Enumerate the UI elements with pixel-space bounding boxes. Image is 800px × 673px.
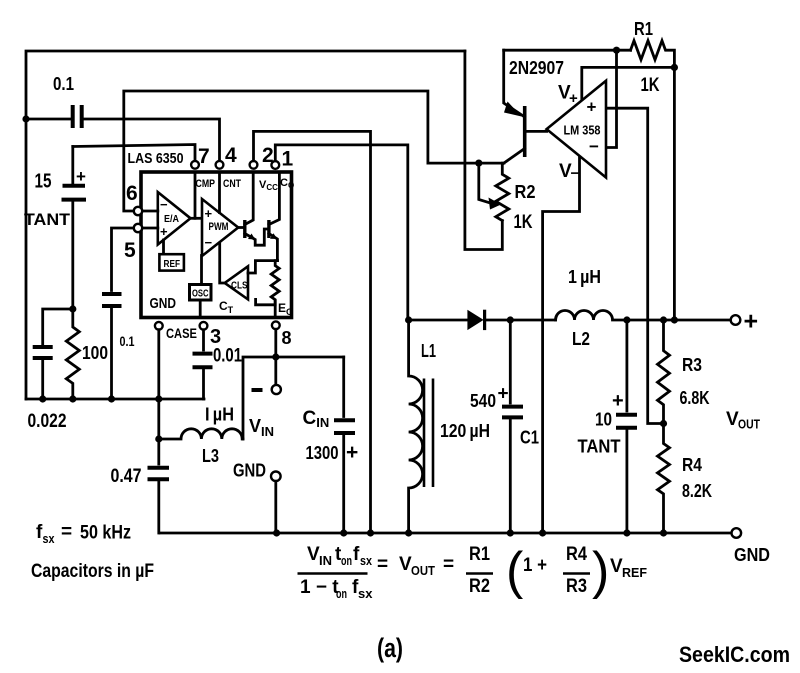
svg-text:R2: R2 — [469, 576, 490, 597]
terminal minus input — [274, 357, 277, 384]
svg-text:1K: 1K — [641, 75, 660, 96]
svg-text:=: = — [443, 554, 454, 575]
svg-text:0.01: 0.01 — [213, 346, 242, 367]
wire: R1 left to - input — [606, 50, 617, 147]
node: left rail to 0.1 cap — [22, 115, 29, 122]
svg-text:=: = — [61, 522, 72, 543]
wire: CNT drop — [218, 173, 221, 213]
svg-text:+: + — [76, 167, 86, 186]
terminal + output — [731, 315, 741, 325]
svg-text:LAS 6350: LAS 6350 — [128, 150, 184, 167]
wire: CLS bottom input — [256, 299, 276, 304]
svg-text:8.2K: 8.2K — [682, 481, 712, 501]
svg-text:−: − — [160, 197, 168, 212]
svg-text:2N2907: 2N2907 — [509, 58, 564, 78]
svg-text:6.8K: 6.8K — [680, 388, 710, 408]
wire: pin 2 to bottom rail — [254, 131, 371, 533]
resistor 100 — [66, 309, 79, 399]
svg-text:OUT: OUT — [738, 417, 760, 432]
svg-text:GND: GND — [233, 461, 266, 481]
node: TANT bottom junction — [69, 305, 76, 312]
capacitor 0.47 — [157, 439, 160, 464]
svg-text:50 kHz: 50 kHz — [80, 523, 131, 544]
IC U1 LAS 6350 box — [141, 172, 292, 318]
svg-text:REF: REF — [622, 565, 647, 580]
box OSC — [190, 285, 212, 301]
capacitor C1 540 — [507, 316, 514, 323]
svg-text:CIN: CIN — [303, 408, 330, 430]
svg-text:L2: L2 — [572, 329, 590, 349]
wire: V+ supply wire — [582, 67, 675, 100]
svg-text:+: + — [744, 308, 759, 336]
svg-text:1300: 1300 — [306, 443, 339, 463]
pin CASE — [155, 322, 163, 330]
svg-text:on: on — [341, 553, 352, 568]
svg-text:1 − t: 1 − t — [300, 577, 339, 598]
svg-text:CLS: CLS — [231, 280, 248, 292]
svg-text:+: + — [205, 206, 213, 221]
resistor R3 — [660, 316, 667, 323]
wire: 0.1 cap to pin 4 — [84, 119, 220, 161]
comparator CLS — [225, 266, 248, 299]
svg-text:C1: C1 — [520, 428, 539, 448]
wire: divider tap to op-amp + input — [606, 108, 664, 423]
svg-text:+: + — [498, 384, 509, 405]
resistor (internal current sense) — [271, 261, 279, 316]
capacitor 10 TANT — [623, 316, 630, 323]
svg-text:1 +: 1 + — [523, 555, 547, 576]
svg-text:CASE: CASE — [166, 325, 197, 341]
transistor Q1 (internal) — [243, 220, 246, 238]
svg-text:+: + — [569, 90, 578, 107]
svg-text:−: − — [205, 235, 213, 250]
wire: 15 TANT top to pin 7 — [73, 145, 195, 162]
svg-text:OSC: OSC — [192, 288, 209, 300]
svg-text:6: 6 — [126, 182, 138, 205]
wire: CLS apex to PWM — [220, 243, 225, 283]
wire: CMP drop — [194, 173, 197, 218]
svg-text:0.47: 0.47 — [111, 466, 142, 487]
svg-text:SeekIC.com: SeekIC.com — [679, 642, 790, 667]
capacitor 15 TANT — [71, 147, 74, 184]
wire: pin 8 down to VIN rail — [274, 329, 277, 357]
svg-text:VIN: VIN — [249, 416, 274, 439]
wire: bottom-left rail — [26, 398, 204, 401]
wire: VIN rail — [243, 357, 344, 439]
resistor R4 — [660, 420, 667, 427]
capacitor 0.1 (top left) — [26, 118, 71, 121]
svg-text:1 µH: 1 µH — [568, 267, 601, 287]
inductor L1 — [409, 320, 423, 533]
pin 2 — [250, 161, 258, 169]
svg-text:0.1: 0.1 — [120, 333, 135, 349]
svg-text:7: 7 — [198, 145, 210, 168]
svg-text:Capacitors in µF: Capacitors in µF — [31, 560, 154, 582]
svg-text:1K: 1K — [514, 212, 533, 233]
inductor L2 — [556, 311, 732, 321]
svg-text:(: ( — [506, 542, 524, 600]
svg-text:sx: sx — [358, 586, 373, 601]
wire: CLS top input — [248, 261, 277, 273]
svg-text:sx: sx — [360, 553, 373, 568]
pin 8 — [272, 321, 280, 329]
svg-text:TANT: TANT — [24, 210, 71, 229]
op-amp E/A — [158, 192, 191, 244]
svg-text:REF: REF — [164, 258, 181, 270]
svg-text:I µH: I µH — [205, 405, 234, 425]
svg-text:15: 15 — [35, 171, 52, 193]
svg-text:540: 540 — [470, 391, 496, 411]
capacitor CIN 1300 — [342, 357, 345, 417]
svg-text:CNT: CNT — [223, 178, 241, 190]
wire: E/A out to PWM — [191, 217, 203, 220]
svg-text:R3: R3 — [682, 355, 702, 375]
wire: pin 3 to 0.01 cap — [202, 330, 205, 350]
capacitor 0.022 — [43, 309, 73, 344]
svg-text:CMP: CMP — [196, 178, 216, 190]
svg-text:L1: L1 — [421, 341, 436, 361]
wire: pin 1 to diode node — [275, 145, 408, 320]
diode D1 — [409, 319, 468, 322]
capacitor 0.1 (pin 5) — [102, 292, 122, 296]
wire: bottom rail — [160, 532, 732, 535]
svg-text:8: 8 — [282, 328, 292, 348]
wire: top rail drop to R2 bottom loop — [465, 51, 502, 250]
svg-text:−: − — [589, 137, 599, 156]
op-amp U2 LM 358 — [547, 81, 606, 178]
svg-text:R1: R1 — [469, 544, 490, 565]
svg-text:f: f — [353, 544, 360, 565]
svg-text:1: 1 — [282, 148, 294, 171]
svg-text:+: + — [160, 224, 168, 239]
terminal GND output — [732, 528, 742, 538]
wire: V- supply wire to ground rail — [543, 158, 580, 534]
svg-text:PWM: PWM — [209, 221, 229, 233]
wire: pin 5 wire to 0.1 cap — [112, 228, 134, 291]
svg-text:0.1: 0.1 — [53, 74, 74, 94]
wire: left rail and top rail — [26, 51, 465, 399]
inductor L3 — [159, 429, 243, 439]
svg-text:4: 4 — [225, 144, 237, 167]
svg-text:sx: sx — [43, 531, 56, 546]
svg-text:(a): (a) — [377, 633, 403, 663]
svg-text:+: + — [587, 98, 597, 117]
wire: emitter rail to R1 — [504, 49, 631, 52]
svg-text:100: 100 — [82, 343, 108, 363]
svg-text:LM 358: LM 358 — [564, 123, 601, 138]
pin 7 — [191, 161, 199, 169]
svg-text:R1: R1 — [634, 19, 653, 39]
wire: CASE pin down through rail to L3 node — [157, 330, 160, 439]
wire: R1 right vertical to + rail — [671, 64, 678, 71]
svg-text:10: 10 — [595, 410, 612, 430]
svg-text:=: = — [377, 554, 388, 575]
pin 3 — [200, 322, 208, 330]
svg-text:+: + — [612, 390, 624, 412]
svg-text:): ) — [592, 542, 609, 600]
wire: OSC to pin 3 — [199, 300, 202, 316]
svg-text:GND: GND — [150, 295, 177, 312]
svg-text:0.022: 0.022 — [28, 411, 67, 432]
svg-text:R4: R4 — [566, 544, 587, 565]
transistor Q2 (internal) — [267, 220, 270, 238]
resistor R2 1K (rheostat) — [475, 160, 482, 167]
svg-text:IN: IN — [319, 553, 332, 568]
svg-text:OUT: OUT — [411, 563, 435, 578]
svg-text:120 µH: 120 µH — [440, 421, 490, 441]
pin 5 — [134, 224, 142, 232]
wire: E/A input stubs — [142, 211, 157, 228]
svg-text:GND: GND — [734, 545, 770, 565]
svg-text:R4: R4 — [682, 455, 702, 475]
pin 4 — [216, 161, 224, 169]
wire: pin 6 feedback wire — [124, 91, 504, 211]
svg-text:R3: R3 — [566, 576, 587, 597]
svg-text:R2: R2 — [515, 182, 536, 202]
svg-text:TANT: TANT — [578, 437, 621, 457]
pin 6 — [134, 207, 142, 215]
capacitor 0.01 — [193, 352, 213, 356]
svg-text:5: 5 — [124, 239, 136, 262]
wire: PWM to OSC — [200, 256, 203, 285]
resistor R1 — [631, 41, 675, 68]
svg-text:L3: L3 — [202, 446, 219, 466]
svg-text:+: + — [346, 441, 358, 464]
svg-text:on: on — [336, 586, 347, 601]
pin 1 — [271, 161, 279, 169]
comparator PWM — [202, 199, 238, 256]
box REF — [162, 240, 165, 254]
